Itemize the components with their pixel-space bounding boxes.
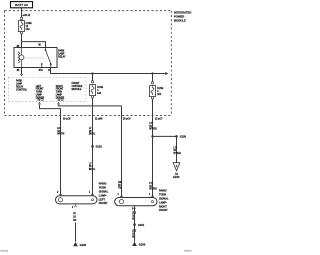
splice S101 [133,223,136,226]
text PARK LAMP RELAY CONTROL [16,80,28,92]
wire to fuse 4 [92,74,94,81]
splice S102 [91,145,94,148]
svg-text:PARK: PARK [58,50,64,53]
relay coil [18,48,24,68]
text FRONT CONTROL MODULE [72,83,84,91]
svg-text:33 C2: 33 C2 [38,99,45,101]
connector arrow left turn driver [38,103,40,105]
ground G106 [132,242,137,246]
svg-text:10A: 10A [97,92,102,95]
svg-text:LAMP: LAMP [36,94,43,97]
connector cavity circle (fuse 15 bottom) [20,32,22,34]
label PARK/TURN SIGNAL LAMP-RIGHT FRONT [159,189,169,213]
bulb left lamp park filament [92,199,94,201]
svg-text:BATT A0: BATT A0 [15,3,28,7]
wire label L7 park left upper [89,128,96,135]
wire to fuse 2 [152,74,154,82]
relay contact [41,48,52,68]
svg-text:TURN: TURN [99,186,106,190]
svg-text:12 ■C7: 12 ■C7 [155,118,163,121]
junction fuse 4 tap [91,72,93,74]
ground wire label Z91 upper [132,212,137,220]
integrated power module dashed box [5,11,172,116]
svg-text:87A: 87A [39,69,44,72]
svg-text:CONTROL: CONTROL [16,89,28,91]
wire label L7 park left lower [89,163,96,170]
svg-text:LEFT: LEFT [36,86,42,88]
connector cavity circle (fuse 2 bottom) [151,97,153,99]
svg-text:FUSE: FUSE [26,23,32,25]
wire fuse 2 down through border [152,99,154,136]
label PARK/TURN SIGNAL LAMP-LEFT FRONT [99,182,109,206]
svg-text:5W6944: 5W6944 [184,251,192,253]
connector cavity circle (fuse 15 top) [20,17,22,19]
fuse F2 value label [157,88,164,96]
FCM dashed sub-box [9,77,87,101]
svg-text:G100: G100 [80,243,87,247]
svg-text:10A: 10A [26,28,31,31]
arrowhead feed continues [165,72,168,75]
bulb right lamp turn filament [119,200,123,204]
svg-text:FRONT: FRONT [56,89,64,91]
svg-text:WT/GD: WT/GD [173,153,181,155]
svg-text:84930-B: 84930-B [1,251,9,253]
text LEFT FRONT TURN LAMP DRIVER [36,86,45,100]
ground wire label Z1 [73,213,77,222]
svg-text:EZ50: EZ50 [173,175,180,179]
splice S108 [175,135,178,138]
wire label L75 right park feed [149,123,157,130]
svg-text:LAMP-: LAMP- [159,200,167,204]
connector cavity circle (fuse 4 bottom) [91,96,93,98]
svg-text:WT/TN: WT/TN [57,134,64,136]
off-page triangle connector [173,163,180,171]
svg-text:FRONT: FRONT [99,201,108,205]
wire relay pin 87 output [51,68,166,74]
wire splice to ground [134,226,136,242]
fuse F4 value label [97,87,104,95]
svg-text:WT/GD: WT/GD [149,129,157,131]
svg-text:RELAY: RELAY [58,55,66,58]
bulb right lamp park filament [152,201,154,203]
svg-text:INTEGRATED: INTEGRATED [174,11,191,15]
wire label L75 right park lower [149,183,157,190]
svg-text:POWER: POWER [174,15,184,19]
svg-text:FUSE: FUSE [97,87,104,89]
svg-text:FRONT: FRONT [72,83,80,85]
svg-text:TURN: TURN [159,193,166,197]
svg-text:PARK/: PARK/ [159,189,167,193]
wire label L61 left turn [57,128,64,135]
svg-text:S101: S101 [138,223,145,227]
svg-text:WT/GD: WT/GD [149,189,157,191]
svg-text:FUSE: FUSE [157,88,164,90]
node BATT A0 [11,2,33,8]
connector cavity circle (fuse 2 top) [151,82,153,84]
svg-text:BK/YL: BK/YL [89,134,96,136]
svg-text:BK/YL: BK/YL [89,169,96,171]
svg-text:18 ■C4: 18 ■C4 [123,118,131,121]
junction right park branch [151,135,153,137]
lamp assembly right front park/turn [115,198,157,206]
ground wire label Z91 lower [132,230,137,238]
svg-text:LAMP: LAMP [58,53,65,56]
svg-text:16 ■C6: 16 ■C6 [63,118,71,121]
relay armature dashed link [24,57,45,59]
wire left lamp to ground [75,223,77,242]
wire branch to splice S108 [153,135,177,137]
svg-text:LAMP-: LAMP- [99,193,107,197]
wire branch to relay pin 30 [22,42,46,48]
wire label L60 right turn [118,182,123,189]
svg-text:TN: TN [118,188,121,190]
svg-text:LEFT: LEFT [99,197,106,201]
wire fuse 2 to right lamp park pin [152,136,154,197]
svg-text:FRONT: FRONT [36,89,44,91]
text RIGHT FRONT TURN LAMP DRIVER [56,86,65,100]
wire left turn driver to left lamp [40,104,61,195]
wire [21,20,23,21]
relay label PARK LAMP RELAY [58,50,66,59]
fuse F4 [90,85,96,96]
junction fuse 2 tap [151,72,153,74]
wire label L75 branch [173,147,181,154]
svg-text:S102: S102 [96,145,103,149]
wire right lamp to splice S101 [134,206,136,225]
lamp assembly left front park/turn [56,196,98,204]
svg-text:CONTROL: CONTROL [72,86,84,88]
svg-text:SIGNAL: SIGNAL [99,190,109,194]
svg-text:SIGNAL: SIGNAL [159,197,169,201]
svg-text:RELAY: RELAY [16,85,24,88]
svg-text:FRONT: FRONT [159,208,168,212]
relay K1 park lamp relay box [14,48,57,68]
wire fuse to relay coil pin 86 [21,34,23,48]
svg-text:RIGHT: RIGHT [159,204,167,208]
svg-text:S108: S108 [180,135,187,139]
wire relay coil 85 to FCM arrow [21,68,23,74]
wire S108 down to off-page [176,136,178,162]
bulb left lamp turn filament [58,198,62,202]
svg-text:TURN: TURN [36,92,43,94]
svg-text:LAMP: LAMP [16,83,23,86]
connector cavity circle (fuse 4 top) [91,81,93,83]
svg-text:MODULE: MODULE [72,89,82,91]
wire right turn driver to right lamp [59,104,122,197]
svg-text:31 C2: 31 C2 [58,99,65,101]
connector arrow into FCM [20,74,22,76]
svg-text:PARK/: PARK/ [99,182,107,186]
fuse F2 [150,86,156,97]
svg-text:TURN: TURN [56,92,63,94]
connector arrow right turn driver [57,103,59,105]
wire battery feed down [21,8,23,17]
ground G100 [73,242,78,246]
svg-text:BK: BK [73,220,77,222]
svg-text:LAMP: LAMP [56,94,63,97]
svg-text:MODULE: MODULE [174,19,186,23]
svg-text:PARK: PARK [16,80,22,83]
svg-text:G106: G106 [139,243,146,247]
svg-text:RIGHT: RIGHT [56,86,64,88]
svg-text:11 ■B6: 11 ■B6 [95,118,103,121]
wire fuse 4 down to S102 and left lamp park pin [92,98,94,196]
module label INTEGRATED POWER MODULE [174,11,191,23]
svg-text:10A: 10A [157,93,162,96]
fuse F15 [18,21,24,32]
svg-text:■A0 14: ■A0 14 [23,14,31,17]
fuse F15 value label [26,23,32,31]
